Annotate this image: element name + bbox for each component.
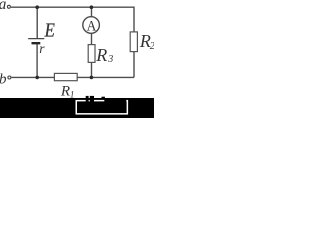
svg-text:A: A: [87, 18, 97, 35]
svg-text:E: E: [44, 19, 55, 41]
svg-text:R: R: [60, 83, 70, 99]
svg-text:2: 2: [150, 41, 154, 52]
svg-text:3: 3: [107, 54, 113, 65]
svg-text:r: r: [39, 41, 45, 56]
svg-text:b: b: [0, 71, 7, 87]
svg-text:R: R: [95, 45, 107, 65]
svg-text:a: a: [0, 0, 7, 13]
